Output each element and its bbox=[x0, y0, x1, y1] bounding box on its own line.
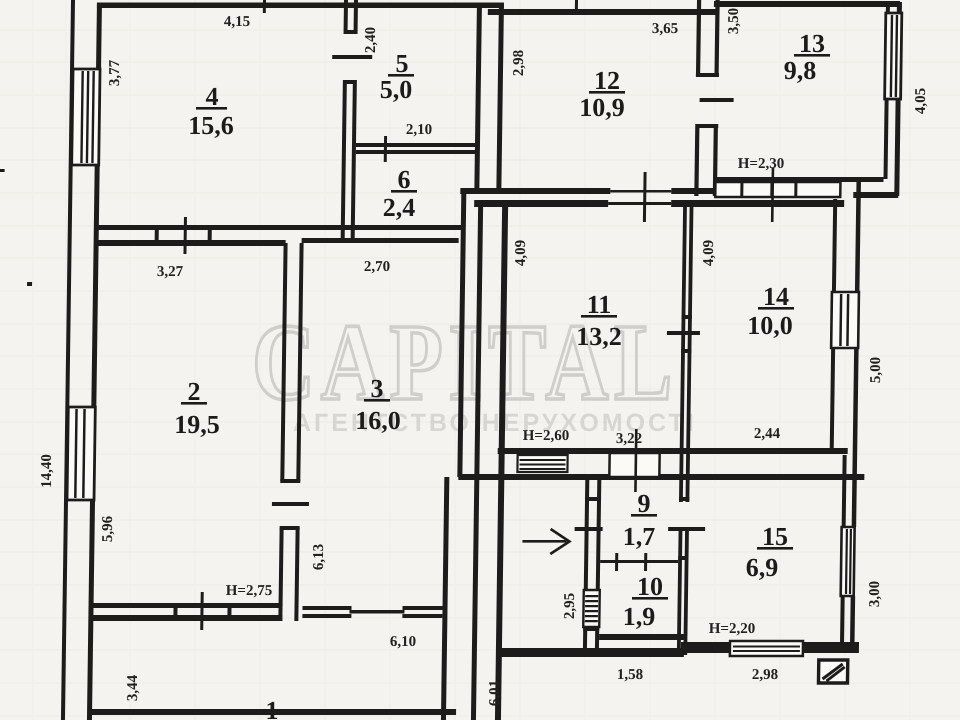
dim tick top wall bbox=[263, 0, 266, 13]
door tick rooms 2|3 bbox=[272, 502, 309, 506]
svg-text:2: 2 bbox=[188, 377, 201, 406]
svg-text:2,10: 2,10 bbox=[406, 122, 432, 138]
svg-text:15,6: 15,6 bbox=[188, 111, 234, 140]
svg-text:1,9: 1,9 bbox=[623, 602, 656, 631]
wall rooms 5,6|12 hollow bbox=[474, 4, 504, 191]
svg-text:5,96: 5,96 bbox=[100, 515, 116, 542]
top wall room 12 bbox=[488, 9, 716, 15]
svg-text:2,98: 2,98 bbox=[511, 50, 527, 76]
rooms 11,14 top wall with opening bbox=[474, 200, 844, 207]
svg-text:2,95: 2,95 bbox=[562, 593, 578, 619]
window W1 on left wall bbox=[72, 69, 100, 165]
door tick room 9 left bbox=[575, 527, 603, 531]
svg-text:14: 14 bbox=[763, 282, 789, 311]
svg-text:15: 15 bbox=[762, 522, 788, 551]
outer wall left, inner line bbox=[87, 3, 102, 720]
door tick rooms 4|5 bbox=[332, 55, 372, 59]
room 4 bottom wall line A bbox=[97, 225, 462, 230]
svg-text:4,15: 4,15 bbox=[224, 14, 250, 30]
svg-text:5,0: 5,0 bbox=[380, 75, 413, 104]
svg-text:5,00: 5,00 bbox=[868, 357, 884, 383]
stray mark bbox=[27, 282, 32, 286]
door tick rooms 11|14 bbox=[667, 331, 700, 335]
shaft line L2 bbox=[471, 202, 483, 720]
svg-text:13,2: 13,2 bbox=[576, 322, 622, 351]
svg-text:6,10: 6,10 bbox=[390, 634, 416, 650]
svg-text:2,40: 2,40 bbox=[363, 27, 379, 53]
band upper line rooms 11,14 bottom bbox=[498, 448, 848, 454]
door box corridor bbox=[609, 453, 659, 477]
svg-text:10,0: 10,0 bbox=[747, 311, 793, 340]
svg-text:3,50: 3,50 bbox=[726, 8, 742, 34]
hatch box on rooms 9,10 left wall bbox=[583, 590, 600, 631]
svg-text:2,70: 2,70 bbox=[364, 259, 390, 275]
wall rooms 2|3 with door bbox=[278, 243, 303, 621]
svg-text:3: 3 bbox=[371, 374, 384, 403]
window box room 15 bottom bbox=[730, 641, 803, 656]
wall rooms 4|5 with door bbox=[341, 0, 358, 242]
room 3 bottom wall with door bbox=[302, 606, 442, 618]
room 2 bottom wall with door bbox=[91, 603, 282, 621]
door tick room 2 bottom bbox=[200, 592, 204, 630]
top wall room 13 bbox=[714, 1, 900, 7]
divider rooms 5|6 bbox=[356, 136, 476, 162]
door tick rooms 9|15 bbox=[668, 527, 705, 531]
window W2 on left wall bbox=[67, 407, 95, 500]
svg-text:Н=2,75: Н=2,75 bbox=[226, 583, 272, 599]
svg-text:Н=2,60: Н=2,60 bbox=[523, 428, 569, 444]
svg-text:3,22: 3,22 bbox=[616, 431, 642, 447]
room 11 left wall bbox=[495, 203, 508, 720]
svg-text:4,05: 4,05 bbox=[913, 88, 929, 114]
room 14 right outer wall with window W4 bbox=[830, 177, 861, 449]
svg-text:2,98: 2,98 bbox=[752, 667, 778, 683]
corridor and block bottom wall bbox=[497, 648, 684, 657]
svg-text:6,9: 6,9 bbox=[746, 553, 779, 582]
room 3 right wall upper bbox=[457, 188, 466, 477]
svg-text:1,58: 1,58 bbox=[617, 667, 643, 683]
room 12 bottom wall upper line with opening bbox=[460, 188, 713, 194]
svg-text:12: 12 bbox=[594, 66, 620, 95]
svg-text:19,5: 19,5 bbox=[174, 410, 220, 439]
svg-text:3,77: 3,77 bbox=[107, 59, 123, 86]
svg-text:5: 5 bbox=[396, 49, 409, 78]
svg-text:16,0: 16,0 bbox=[355, 406, 401, 435]
door tick room 4 bottom bbox=[183, 217, 187, 254]
svg-text:11: 11 bbox=[587, 290, 612, 319]
svg-text:10,9: 10,9 bbox=[579, 93, 625, 122]
svg-text:10: 10 bbox=[637, 572, 663, 601]
svg-text:4: 4 bbox=[206, 82, 219, 111]
entry arrow bbox=[522, 529, 569, 554]
band lower line corridor top bbox=[458, 474, 864, 480]
window row under room 13 bbox=[715, 182, 840, 197]
room 10 bottom line bbox=[599, 634, 687, 640]
room 15 bottom wall bbox=[681, 642, 859, 653]
svg-text:2,44: 2,44 bbox=[754, 426, 781, 442]
svg-text:Н=2,30: Н=2,30 bbox=[738, 156, 784, 172]
svg-text:3,00: 3,00 bbox=[867, 581, 883, 607]
svg-text:4,09: 4,09 bbox=[701, 240, 717, 266]
wall rooms 12|13 with door bbox=[694, 0, 720, 196]
door tick rooms 12|13 bbox=[700, 98, 734, 102]
room 15 right outer wall with window W5 bbox=[840, 449, 857, 642]
hatch box corridor bbox=[517, 455, 567, 472]
rooms 9,10 left wall bbox=[583, 478, 601, 655]
porch line SA bbox=[441, 477, 449, 720]
stray mark left edge bbox=[0, 169, 5, 172]
dim tick room 12 top bbox=[575, 0, 578, 13]
room 13 bottom wall bbox=[713, 177, 883, 182]
room 13 right outer wall with window W3 bbox=[883, 2, 902, 196]
svg-text:3,65: 3,65 bbox=[652, 21, 678, 37]
svg-text:6,13: 6,13 bbox=[311, 544, 327, 570]
dim tick under room 13 bbox=[771, 168, 774, 222]
bottom wall room 1 bbox=[90, 709, 456, 715]
meter box bbox=[818, 660, 847, 683]
svg-text:14,40: 14,40 bbox=[39, 454, 55, 488]
svg-text:9: 9 bbox=[638, 489, 651, 518]
svg-text:3,27: 3,27 bbox=[157, 264, 184, 280]
svg-text:CAPITAL: CAPITAL bbox=[252, 302, 678, 424]
outer wall left, outer line bbox=[61, 0, 75, 720]
top wall rooms 4-5 bbox=[97, 3, 504, 9]
long tick corridor door bbox=[634, 429, 637, 492]
wall rooms 11|14 and 9,10|15 with doors bbox=[677, 207, 694, 655]
long tick rooms 12|11 bbox=[643, 172, 647, 222]
svg-text:Н=2,20: Н=2,20 bbox=[709, 621, 755, 637]
door dividers room 4 bottom bbox=[155, 229, 212, 241]
svg-text:13: 13 bbox=[799, 29, 825, 58]
svg-text:9,8: 9,8 bbox=[784, 56, 817, 85]
svg-text:6,01: 6,01 bbox=[487, 680, 503, 706]
svg-text:6: 6 bbox=[398, 165, 411, 194]
svg-text:3,44: 3,44 bbox=[125, 674, 141, 701]
step cap right bbox=[853, 192, 898, 198]
svg-text:1,7: 1,7 bbox=[623, 522, 656, 551]
svg-text:4,09: 4,09 bbox=[513, 240, 529, 266]
svg-text:1: 1 bbox=[266, 696, 279, 720]
svg-text:2,4: 2,4 bbox=[383, 193, 416, 222]
room 4 bottom wall line B bbox=[97, 238, 459, 246]
divider rooms 9|10 bbox=[600, 553, 678, 571]
